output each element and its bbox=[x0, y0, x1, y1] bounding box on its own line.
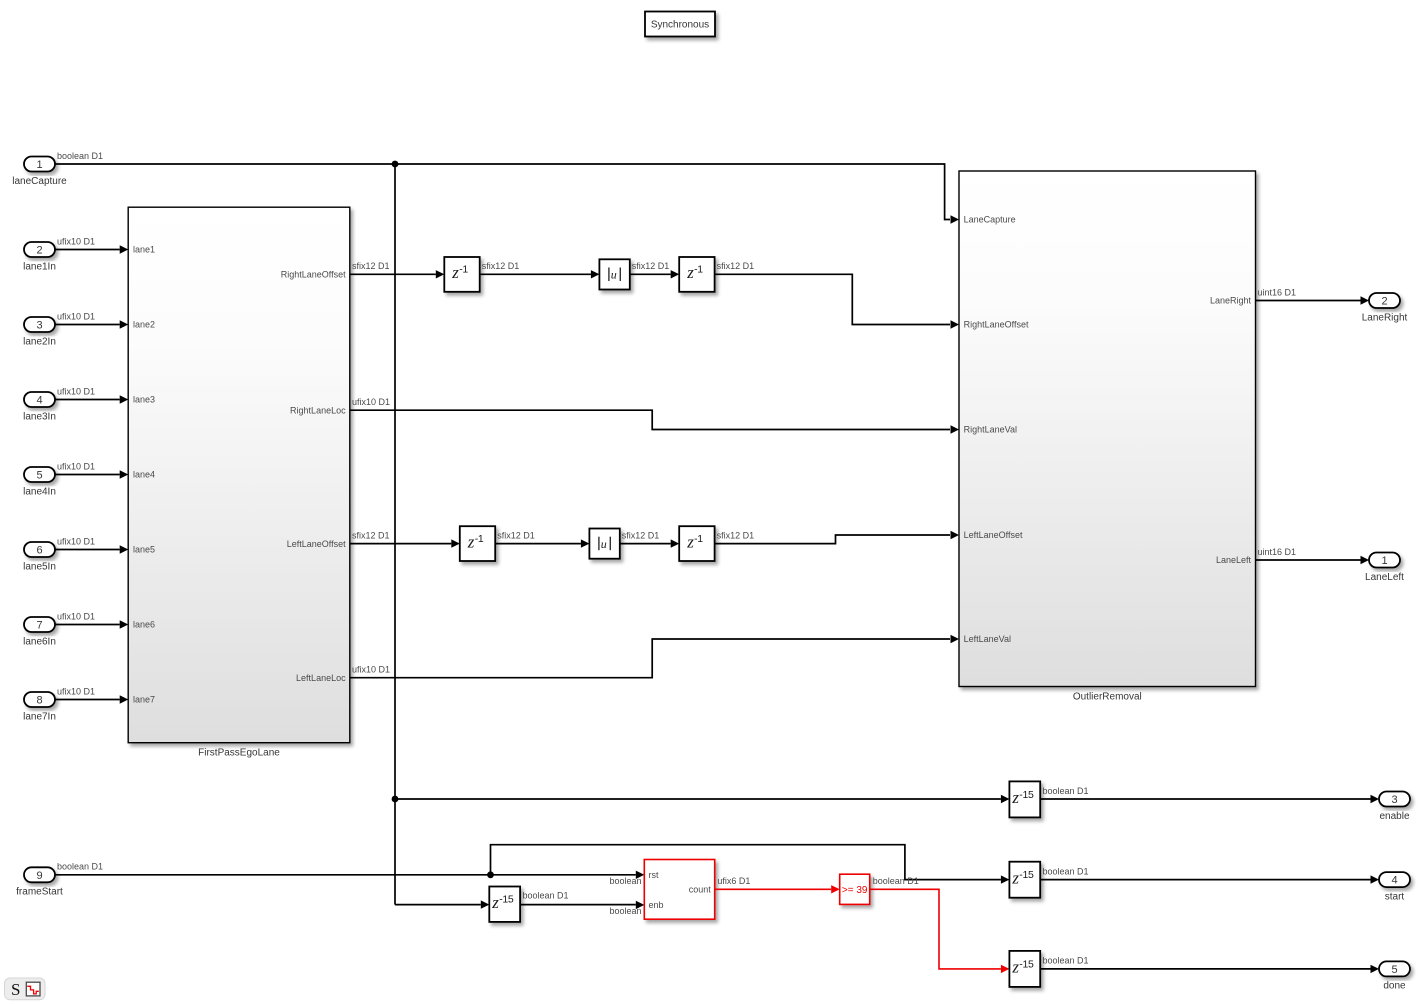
svg-text:ufix10 D1: ufix10 D1 bbox=[352, 665, 390, 675]
svg-text:-15: -15 bbox=[1019, 789, 1034, 801]
svg-text:done: done bbox=[1383, 981, 1406, 992]
wire lane3In bbox=[56, 399, 120, 401]
abs U2 row1 bbox=[599, 259, 629, 289]
svg-text:frameStart: frameStart bbox=[16, 887, 63, 898]
svg-text:lane3In: lane3In bbox=[23, 411, 56, 422]
svg-text:sfix12 D1: sfix12 D1 bbox=[497, 530, 535, 540]
wire z-15 to outport 4 bbox=[1040, 879, 1370, 881]
svg-text:lane7: lane7 bbox=[133, 695, 155, 705]
svg-text:6: 6 bbox=[36, 545, 42, 557]
counter U9 (red) bbox=[644, 860, 714, 920]
svg-text:sfix12 D1: sfix12 D1 bbox=[482, 261, 520, 271]
svg-text:uint16 D1: uint16 D1 bbox=[1258, 547, 1297, 557]
svg-text:OutlierRemoval: OutlierRemoval bbox=[1073, 691, 1142, 702]
svg-text:9: 9 bbox=[36, 870, 42, 882]
wire OutlierRemoval.LaneRight to outport 2 bbox=[1256, 300, 1361, 302]
delay U11 z-15 start bbox=[1009, 862, 1040, 898]
svg-text:count: count bbox=[689, 885, 712, 895]
svg-text:RightLaneOffset: RightLaneOffset bbox=[964, 320, 1029, 330]
svg-text:z: z bbox=[1011, 958, 1019, 977]
wire z-1 to abs row1 bbox=[480, 273, 591, 275]
svg-text:4: 4 bbox=[1391, 875, 1397, 887]
inport 1 laneCapture bbox=[24, 157, 55, 172]
delay U7 z-15 enable bbox=[1009, 781, 1040, 817]
svg-text:lane2In: lane2In bbox=[23, 336, 56, 347]
svg-text:sfix12 D1: sfix12 D1 bbox=[717, 261, 755, 271]
wire lane7In bbox=[56, 699, 120, 701]
svg-text:lane4In: lane4In bbox=[23, 486, 56, 497]
svg-text:lane6: lane6 bbox=[133, 620, 155, 630]
svg-text:boolean D1: boolean D1 bbox=[1043, 866, 1089, 876]
wire OutlierRemoval.LaneLeft to outport 1 bbox=[1256, 559, 1361, 561]
inport 3 lane2In bbox=[24, 317, 55, 332]
svg-text:boolean: boolean bbox=[609, 906, 641, 916]
delay U3 z-1 row1 second bbox=[679, 257, 714, 292]
outport 1 LaneLeft bbox=[1369, 553, 1400, 568]
outport 2 LaneRight bbox=[1369, 293, 1400, 308]
svg-text:rst: rst bbox=[649, 870, 659, 880]
wire lane6In bbox=[56, 624, 120, 626]
svg-text:LaneRight: LaneRight bbox=[1362, 312, 1408, 323]
inport 2 lane1In bbox=[24, 242, 55, 257]
svg-text:S: S bbox=[11, 980, 20, 999]
svg-text:-1: -1 bbox=[694, 533, 703, 545]
svg-text:sfix12 D1: sfix12 D1 bbox=[717, 530, 755, 540]
wire vertical trunk from laneCapture junction bbox=[394, 164, 396, 905]
inport 5 lane4In bbox=[24, 467, 55, 482]
wire compare to z-15 done (red) bbox=[870, 889, 1001, 969]
svg-text:enable: enable bbox=[1379, 811, 1409, 822]
svg-text:ufix10 D1: ufix10 D1 bbox=[57, 686, 95, 696]
svg-text:boolean D1: boolean D1 bbox=[57, 151, 103, 161]
svg-text:lane2: lane2 bbox=[133, 320, 155, 330]
delay U1 z-1 row1 bbox=[444, 257, 479, 292]
svg-text:z: z bbox=[491, 893, 499, 912]
svg-text:1: 1 bbox=[1381, 555, 1387, 567]
svg-text:ufix10 D1: ufix10 D1 bbox=[57, 311, 95, 321]
svg-text:z: z bbox=[686, 263, 694, 282]
svg-text:-1: -1 bbox=[694, 264, 703, 276]
svg-text:RightLaneOffset: RightLaneOffset bbox=[281, 270, 346, 280]
outport 3 enable bbox=[1379, 792, 1410, 807]
wire lane1In bbox=[56, 249, 120, 251]
wire FirstPass.RightLaneOffset to z-1 bbox=[350, 273, 436, 275]
svg-text:u: u bbox=[601, 537, 607, 551]
svg-text:lane3: lane3 bbox=[133, 395, 155, 405]
svg-text:-15: -15 bbox=[499, 894, 514, 906]
outport 5 done bbox=[1379, 961, 1410, 976]
svg-text:LeftLaneLoc: LeftLaneLoc bbox=[296, 673, 346, 683]
svg-text:ufix10 D1: ufix10 D1 bbox=[57, 461, 95, 471]
svg-text:sfix12 D1: sfix12 D1 bbox=[632, 261, 670, 271]
delay U4 z-1 row2 bbox=[460, 526, 495, 561]
svg-text:z: z bbox=[1011, 869, 1019, 888]
abs U5 row2 bbox=[589, 529, 619, 559]
inport 4 lane3In bbox=[24, 392, 55, 407]
svg-text:3: 3 bbox=[1391, 794, 1397, 806]
outport 4 start bbox=[1379, 872, 1410, 887]
wire junction to delay enable (z-15 top) bbox=[395, 798, 1001, 800]
svg-text:z: z bbox=[467, 532, 475, 551]
svg-text:sfix12 D1: sfix12 D1 bbox=[352, 261, 390, 271]
svg-text:boolean D1: boolean D1 bbox=[1043, 786, 1089, 796]
wire z-15 to outport 3 bbox=[1040, 798, 1370, 800]
wire FirstPass.LeftLaneOffset to z-1 row2 bbox=[350, 543, 451, 545]
wire z-15 to outport 5 bbox=[1040, 968, 1370, 970]
svg-text:lane6In: lane6In bbox=[23, 636, 56, 647]
svg-text:boolean D1: boolean D1 bbox=[1043, 956, 1089, 966]
svg-text:LaneCapture: LaneCapture bbox=[964, 215, 1016, 225]
wire counter.count to compare (red) bbox=[715, 888, 832, 890]
svg-text:Synchronous: Synchronous bbox=[651, 20, 709, 31]
svg-text:lane1In: lane1In bbox=[23, 261, 56, 272]
svg-text:1: 1 bbox=[36, 159, 42, 171]
svg-text:ufix10 D1: ufix10 D1 bbox=[352, 397, 390, 407]
svg-text:laneCapture: laneCapture bbox=[12, 176, 67, 187]
svg-text:lane5In: lane5In bbox=[23, 561, 56, 572]
svg-text:lane1: lane1 bbox=[133, 245, 155, 255]
svg-text:z: z bbox=[1011, 788, 1019, 807]
svg-text:boolean D1: boolean D1 bbox=[873, 876, 919, 886]
wire frameStart to counter rst bbox=[56, 874, 636, 876]
svg-text:3: 3 bbox=[36, 320, 42, 332]
wire frameStart branch to z-15 start bbox=[491, 845, 1001, 880]
wire FirstPass.RightLaneLoc to OutlierRemoval.RightLaneVal bbox=[350, 410, 950, 429]
junction frameStart branch bbox=[487, 871, 494, 878]
svg-text:2: 2 bbox=[1381, 296, 1387, 308]
annotation Synchronous bbox=[645, 12, 715, 37]
wire trunk to z-15 left bbox=[395, 904, 481, 906]
wire abs to z-1 row2 bbox=[620, 543, 671, 545]
wire laneCapture to OutlierRemoval.LaneCapture bbox=[56, 164, 951, 220]
wire lane2In bbox=[56, 324, 120, 326]
svg-text:sfix12 D1: sfix12 D1 bbox=[622, 530, 660, 540]
svg-text:enb: enb bbox=[649, 900, 664, 910]
junction enable branch bbox=[392, 796, 399, 803]
wire z-15 to counter enb bbox=[520, 904, 636, 906]
svg-text:-1: -1 bbox=[459, 264, 468, 276]
subsystem OutlierRemoval bbox=[959, 171, 1256, 687]
svg-text:FirstPassEgoLane: FirstPassEgoLane bbox=[198, 748, 280, 759]
wire z-1 to abs row2 bbox=[495, 543, 581, 545]
svg-text:RightLaneVal: RightLaneVal bbox=[964, 425, 1017, 435]
svg-text:ufix10 D1: ufix10 D1 bbox=[57, 236, 95, 246]
svg-text:5: 5 bbox=[36, 470, 42, 482]
svg-text:-1: -1 bbox=[475, 533, 484, 545]
svg-text:LeftLaneOffset: LeftLaneOffset bbox=[964, 530, 1023, 540]
delay U6 z-1 row2 second bbox=[679, 526, 714, 561]
svg-text:>= 39: >= 39 bbox=[842, 885, 868, 896]
svg-text:-15: -15 bbox=[1019, 869, 1034, 881]
inport 7 lane6In bbox=[24, 617, 55, 632]
svg-text:-15: -15 bbox=[1019, 958, 1034, 970]
svg-text:ufix10 D1: ufix10 D1 bbox=[57, 386, 95, 396]
wire z-1 row1 to OutlierRemoval.RightLaneOffset bbox=[715, 274, 950, 324]
inport 8 lane7In bbox=[24, 692, 55, 707]
delay U8 z-15 frameStart bbox=[489, 887, 520, 922]
svg-text:lane5: lane5 bbox=[133, 545, 155, 555]
svg-text:lane7In: lane7In bbox=[23, 711, 56, 722]
svg-text:lane4: lane4 bbox=[133, 470, 155, 480]
svg-text:ufix6 D1: ufix6 D1 bbox=[717, 876, 750, 886]
wire lane5In bbox=[56, 549, 120, 551]
svg-text:boolean D1: boolean D1 bbox=[57, 862, 103, 872]
svg-text:LeftLaneOffset: LeftLaneOffset bbox=[287, 539, 346, 549]
svg-text:LaneLeft: LaneLeft bbox=[1365, 572, 1404, 583]
wire z-1 row2 to OutlierRemoval.LeftLaneOffset bbox=[715, 535, 950, 544]
svg-text:uint16 D1: uint16 D1 bbox=[1258, 287, 1297, 297]
wire abs to z-1 row1 bbox=[630, 273, 671, 275]
svg-text:8: 8 bbox=[36, 695, 42, 707]
svg-text:boolean D1: boolean D1 bbox=[523, 891, 569, 901]
wire FirstPass.LeftLaneLoc to OutlierRemoval.LeftLaneVal bbox=[350, 639, 950, 678]
inport 9 frameStart bbox=[24, 867, 55, 882]
svg-text:z: z bbox=[451, 263, 459, 282]
delay U12 z-15 done bbox=[1009, 951, 1040, 987]
svg-text:5: 5 bbox=[1391, 964, 1397, 976]
svg-text:start: start bbox=[1385, 891, 1405, 902]
inport 6 lane5In bbox=[24, 542, 55, 557]
subsystem FirstPassEgoLane bbox=[128, 207, 350, 743]
svg-text:boolean: boolean bbox=[609, 876, 641, 886]
badge sample-time legend bbox=[5, 978, 46, 1000]
svg-text:LaneRight: LaneRight bbox=[1210, 296, 1252, 306]
compare U10 >= 39 (red) bbox=[840, 874, 870, 904]
svg-text:7: 7 bbox=[36, 620, 42, 632]
junction laneCapture branch bbox=[392, 161, 399, 168]
svg-text:z: z bbox=[686, 532, 694, 551]
svg-text:LaneLeft: LaneLeft bbox=[1216, 555, 1252, 565]
svg-text:sfix12 D1: sfix12 D1 bbox=[352, 530, 390, 540]
svg-text:RightLaneLoc: RightLaneLoc bbox=[290, 405, 346, 415]
svg-text:u: u bbox=[611, 268, 617, 282]
wire lane4In bbox=[56, 474, 120, 476]
svg-text:4: 4 bbox=[36, 395, 42, 407]
svg-text:ufix10 D1: ufix10 D1 bbox=[57, 536, 95, 546]
svg-text:2: 2 bbox=[36, 245, 42, 257]
svg-text:ufix10 D1: ufix10 D1 bbox=[57, 611, 95, 621]
svg-text:LeftLaneVal: LeftLaneVal bbox=[964, 634, 1011, 644]
